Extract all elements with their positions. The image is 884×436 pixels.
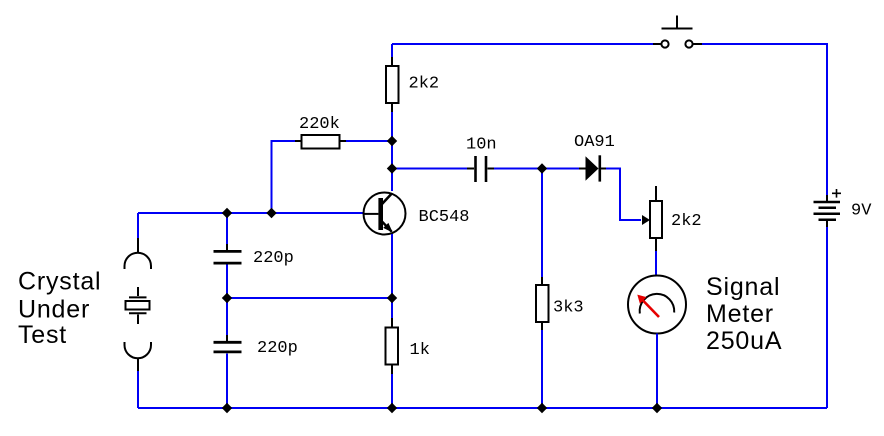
label D1 OA91 bbox=[574, 133, 615, 152]
label Q1 BC548 bbox=[419, 208, 470, 227]
junction base rail at 220k drop bbox=[266, 208, 276, 218]
resistor R4 3k3 bbox=[536, 277, 549, 330]
junction base rail at cap branch bbox=[222, 208, 232, 218]
wire emitter branch through 1k bbox=[391, 298, 393, 408]
wire cap branch between caps bbox=[226, 265, 228, 342]
switch S1 (push button) bbox=[653, 16, 702, 48]
wire preset to meter bbox=[655, 251, 657, 276]
junction node C at collector/10n bbox=[387, 163, 397, 173]
svg-text:Crystal: Crystal bbox=[18, 268, 101, 296]
wire junction R1 to node C bbox=[391, 141, 393, 169]
svg-text:3k3: 3k3 bbox=[553, 299, 584, 318]
battery B1 bbox=[814, 189, 842, 227]
label R5 2k2 bbox=[671, 212, 702, 231]
wire top rail left bbox=[392, 43, 653, 45]
wire diode out to preset wiper bbox=[606, 169, 641, 221]
wire collector bbox=[391, 168, 393, 191]
wire 220k left lead and drop to base rail bbox=[272, 141, 296, 213]
wire base rail bbox=[138, 212, 364, 214]
wire R1 branch vertical bbox=[391, 44, 393, 142]
svg-text:220k: 220k bbox=[299, 115, 340, 134]
wire crystal top bbox=[137, 213, 139, 238]
crystal socket bottom contact bbox=[125, 342, 152, 371]
crystal socket top contact bbox=[125, 238, 152, 269]
wire bottom rail bbox=[138, 407, 827, 409]
meter M1 bbox=[628, 276, 686, 334]
svg-text:Signal: Signal bbox=[706, 273, 780, 301]
wire meter to bottom rail bbox=[656, 334, 658, 409]
capacitor C2 220p bbox=[214, 335, 242, 360]
wire node D down to 3k3 bbox=[541, 169, 543, 278]
junction mid rail left bbox=[222, 293, 232, 303]
svg-text:2k2: 2k2 bbox=[409, 75, 440, 94]
svg-text:2k2: 2k2 bbox=[671, 212, 702, 231]
svg-text:Test: Test bbox=[18, 321, 67, 349]
svg-text:Under: Under bbox=[18, 296, 90, 324]
label R2 220k bbox=[299, 115, 340, 134]
junction mid rail right bbox=[387, 293, 397, 303]
crystal X1 bbox=[126, 287, 150, 324]
label Crystal Under Test bbox=[18, 268, 101, 350]
junction bottom rail at cap branch bbox=[222, 403, 232, 413]
wire node C to 10n bbox=[392, 168, 467, 170]
diode D1 OA91 bbox=[579, 155, 606, 181]
svg-text:10n: 10n bbox=[466, 136, 497, 155]
wire 220k right lead to junction bbox=[346, 140, 392, 142]
wire cap branch to bottom rail bbox=[226, 354, 228, 409]
resistor R3 1k bbox=[386, 318, 399, 374]
capacitor C3 10n bbox=[467, 156, 494, 182]
label Signal Meter 250uA bbox=[706, 273, 782, 355]
wire emitter down bbox=[391, 234, 393, 298]
svg-text:BC548: BC548 bbox=[419, 208, 470, 227]
transistor Q1 BC548 bbox=[364, 193, 406, 235]
label C2 220p bbox=[257, 339, 298, 358]
wire crystal bottom to rail bbox=[137, 371, 139, 408]
label R4 3k3 bbox=[553, 299, 584, 318]
label R1 2k2 bbox=[409, 75, 440, 94]
svg-text:OA91: OA91 bbox=[574, 133, 615, 152]
junction bottom rail at meter bbox=[652, 403, 662, 413]
wire battery negative down bbox=[826, 227, 828, 408]
label C1 220p bbox=[253, 249, 294, 268]
resistor R1 2k2 bbox=[386, 57, 399, 112]
wire 3k3 to bottom rail bbox=[541, 330, 543, 408]
svg-text:220p: 220p bbox=[253, 249, 294, 268]
svg-text:250uA: 250uA bbox=[706, 327, 782, 355]
wire top rail right to battery positive bbox=[702, 44, 827, 195]
junction bottom rail at 1k bbox=[387, 403, 397, 413]
svg-text:1k: 1k bbox=[410, 341, 430, 360]
svg-text:9V: 9V bbox=[851, 202, 872, 221]
preset R5 2k2 bbox=[642, 186, 662, 251]
svg-text:Meter: Meter bbox=[706, 300, 774, 328]
label 9V bbox=[851, 202, 872, 221]
label R3 1k bbox=[410, 341, 430, 360]
wire 10n to diode (through node D) bbox=[494, 168, 579, 170]
junction node D at 10n/diode/3k3 bbox=[537, 163, 547, 173]
capacitor C1 220p bbox=[214, 244, 242, 271]
wire mid rail bbox=[227, 297, 392, 299]
junction bottom rail at 3k3 bbox=[537, 403, 547, 413]
svg-text:220p: 220p bbox=[257, 339, 298, 358]
label C3 10n bbox=[466, 136, 497, 155]
resistor R2 220k bbox=[295, 135, 346, 149]
junction node at R1/220k bbox=[387, 136, 397, 146]
wire cap branch vertical upper bbox=[226, 213, 228, 250]
